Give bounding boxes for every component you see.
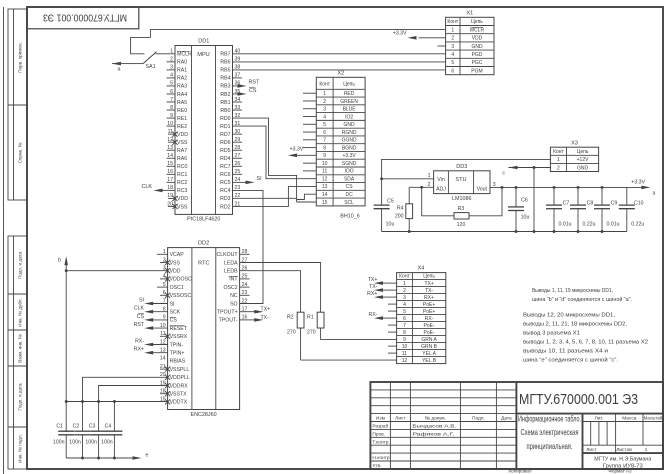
svg-text:Цепь: Цепь xyxy=(423,274,435,280)
svg-text:MCLR: MCLR xyxy=(470,27,485,33)
svg-text:RA2: RA2 xyxy=(177,76,187,82)
svg-text:120: 120 xyxy=(457,222,466,228)
svg-text:Конт: Конт xyxy=(319,81,330,87)
svg-text:шина “b” и “d” соединяются с ш: шина “b” и “d” соединяются с шиной “а”. xyxy=(532,296,632,303)
svg-text:Бындасов А.В.: Бындасов А.В. xyxy=(412,424,456,430)
svg-text:CS: CS xyxy=(346,184,354,190)
svg-text:Подп. и дата: Подп. и дата xyxy=(18,383,23,411)
svg-text:VSS: VSS xyxy=(177,140,188,146)
svg-text:CLK: CLK xyxy=(142,184,153,190)
svg-text:2: 2 xyxy=(451,36,454,42)
svg-text:INT: INT xyxy=(229,277,238,283)
svg-text:SCL: SCL xyxy=(344,200,354,206)
svg-text:2: 2 xyxy=(403,288,406,294)
svg-text:Масса: Масса xyxy=(622,416,637,422)
svg-text:Подп. и дата: Подп. и дата xyxy=(18,252,23,280)
svg-text:3: 3 xyxy=(403,295,406,301)
svg-text:270: 270 xyxy=(307,330,316,336)
svg-text:Рафиков А.Г.: Рафиков А.Г. xyxy=(412,432,454,438)
svg-text:RC2: RC2 xyxy=(177,180,187,186)
svg-text:RD4: RD4 xyxy=(220,156,230,162)
svg-text:4: 4 xyxy=(451,52,454,58)
svg-text:выводы 2, 11, 21, 18 микросхем: выводы 2, 11, 21, 18 микросхемы DD2, xyxy=(523,322,627,328)
svg-text:RD0: RD0 xyxy=(220,116,230,122)
svg-text:RC4: RC4 xyxy=(220,188,230,194)
svg-text:Инв. № дубл.: Инв. № дубл. xyxy=(18,298,23,326)
svg-text:PGD: PGD xyxy=(472,52,483,58)
svg-text:Формат А3: Формат А3 xyxy=(608,469,632,474)
svg-text:CLKOUT: CLKOUT xyxy=(217,252,239,258)
svg-text:RX+: RX+ xyxy=(367,291,377,297)
svg-text:7: 7 xyxy=(403,323,406,329)
svg-text:Конт: Конт xyxy=(399,274,410,280)
svg-text:RA7: RA7 xyxy=(177,148,187,154)
svg-text:10u: 10u xyxy=(521,215,530,221)
svg-text:+3.3V: +3.3V xyxy=(393,30,407,36)
svg-text:RX-: RX- xyxy=(135,338,144,344)
svg-text:PoE-: PoE- xyxy=(424,330,435,336)
svg-text:1: 1 xyxy=(403,281,406,287)
svg-text:Листов: Листов xyxy=(616,447,632,453)
svg-text:3: 3 xyxy=(451,44,454,50)
svg-text:Цепь: Цепь xyxy=(343,81,355,87)
svg-text:12: 12 xyxy=(322,176,328,182)
svg-text:DD3: DD3 xyxy=(456,164,467,170)
svg-text:Конт: Конт xyxy=(553,149,564,155)
svg-text:VCAP: VCAP xyxy=(170,252,185,258)
svg-text:100n: 100n xyxy=(101,440,113,446)
svg-text:13: 13 xyxy=(322,184,328,190)
svg-text:VDDTX: VDDTX xyxy=(170,400,188,406)
svg-text:Утв.: Утв. xyxy=(372,463,381,469)
svg-text:Справ. №: Справ. № xyxy=(18,143,23,164)
svg-text:0.01u: 0.01u xyxy=(607,222,620,228)
svg-text:Н.контр.: Н.контр. xyxy=(372,455,390,461)
svg-text:X2: X2 xyxy=(337,70,344,76)
svg-text:Т.контр.: Т.контр. xyxy=(372,439,389,445)
svg-text:C8: C8 xyxy=(587,201,594,207)
svg-text:RD1: RD1 xyxy=(220,124,230,130)
svg-text:0.22u: 0.22u xyxy=(631,222,644,228)
svg-text:TPOUT+: TPOUT+ xyxy=(217,310,238,316)
svg-text:GREEN: GREEN xyxy=(340,99,358,105)
svg-text:1: 1 xyxy=(451,27,454,33)
svg-text:RA0: RA0 xyxy=(177,60,187,66)
svg-text:TPIN+: TPIN+ xyxy=(170,351,185,357)
svg-text:Перв. примен.: Перв. примен. xyxy=(18,42,23,73)
svg-text:Копировал: Копировал xyxy=(508,469,531,474)
svg-text:100n: 100n xyxy=(53,440,65,446)
svg-text:RD5: RD5 xyxy=(220,148,230,154)
svg-text:RA5: RA5 xyxy=(177,100,187,106)
svg-text:RB4: RB4 xyxy=(220,76,230,82)
svg-text:100n: 100n xyxy=(85,440,97,446)
svg-text:RESET: RESET xyxy=(170,326,188,332)
svg-text:GRN A: GRN A xyxy=(421,337,437,343)
svg-text:4: 4 xyxy=(323,114,326,120)
svg-text:SI: SI xyxy=(139,297,144,303)
svg-text:CS: CS xyxy=(249,88,257,94)
svg-text:C3: C3 xyxy=(89,424,96,430)
svg-text:Цепь: Цепь xyxy=(471,19,483,25)
svg-text:9: 9 xyxy=(403,337,406,343)
svg-text:RE0: RE0 xyxy=(177,108,187,114)
svg-text:1: 1 xyxy=(428,173,431,179)
svg-text:12: 12 xyxy=(402,358,408,364)
svg-text:YEL B: YEL B xyxy=(422,358,437,364)
svg-text:RC1: RC1 xyxy=(177,172,187,178)
svg-text:Лит.: Лит. xyxy=(595,416,604,422)
svg-text:RED: RED xyxy=(344,91,355,97)
svg-text:OSC1: OSC1 xyxy=(170,285,184,291)
svg-text:VDD: VDD xyxy=(177,132,188,138)
svg-text:GGND: GGND xyxy=(342,138,357,144)
svg-text:ENC28J60: ENC28J60 xyxy=(191,412,217,418)
svg-text:выводы 10, 11 разъема X4 и: выводы 10, 11 разъема X4 и xyxy=(523,349,608,355)
svg-text:8: 8 xyxy=(403,330,406,336)
svg-text:OSC2: OSC2 xyxy=(223,285,237,291)
svg-text:GND: GND xyxy=(471,44,483,50)
svg-text:R1: R1 xyxy=(307,315,314,321)
svg-text:e: e xyxy=(146,453,149,459)
svg-text:14: 14 xyxy=(160,356,166,362)
svg-text:№ докум.: № докум. xyxy=(425,416,446,422)
svg-text:22: 22 xyxy=(242,298,248,304)
svg-text:14: 14 xyxy=(322,192,328,198)
svg-text:Информационное табло.: Информационное табло. xyxy=(518,414,581,423)
svg-text:RD6: RD6 xyxy=(220,140,230,146)
svg-text:RA6: RA6 xyxy=(177,156,187,162)
svg-text:LM1086: LM1086 xyxy=(452,196,471,202)
svg-text:SA1: SA1 xyxy=(145,64,155,70)
svg-text:RC5: RC5 xyxy=(220,180,230,186)
svg-text:6: 6 xyxy=(403,316,406,322)
svg-text:Подп.: Подп. xyxy=(472,416,485,422)
svg-text:TX-: TX- xyxy=(261,315,270,321)
svg-text:DD2: DD2 xyxy=(198,241,209,247)
svg-text:270: 270 xyxy=(287,330,296,336)
svg-text:RC3: RC3 xyxy=(177,188,187,194)
svg-text:PoE+: PoE+ xyxy=(423,309,435,315)
svg-text:DC: DC xyxy=(345,192,353,198)
svg-text:0.22u: 0.22u xyxy=(583,222,596,228)
svg-text:4: 4 xyxy=(403,302,406,308)
svg-text:STU: STU xyxy=(455,177,466,183)
svg-text:C9: C9 xyxy=(611,201,618,207)
svg-text:RB0: RB0 xyxy=(220,108,230,114)
svg-text:CS: CS xyxy=(170,318,178,324)
svg-text:RA4: RA4 xyxy=(177,92,187,98)
svg-text:VSS: VSS xyxy=(177,204,188,210)
svg-text:SI: SI xyxy=(170,301,175,307)
svg-text:Цепь: Цепь xyxy=(577,149,589,155)
svg-text:R2: R2 xyxy=(287,315,294,321)
svg-text:+3.3V: +3.3V xyxy=(290,146,304,152)
svg-text:VSSOSC: VSSOSC xyxy=(170,293,192,299)
svg-text:RB6: RB6 xyxy=(220,60,230,66)
svg-text:TX+: TX+ xyxy=(368,277,378,283)
svg-text:6: 6 xyxy=(451,68,454,74)
svg-text:VDD: VDD xyxy=(177,196,188,202)
svg-text:SGND: SGND xyxy=(342,161,357,167)
svg-text:VSSRX: VSSRX xyxy=(170,334,188,340)
svg-text:7: 7 xyxy=(323,138,326,144)
svg-text:VSSTX: VSSTX xyxy=(170,392,188,398)
svg-text:11: 11 xyxy=(322,169,327,175)
svg-text:1: 1 xyxy=(645,447,648,453)
svg-text:SCK: SCK xyxy=(170,310,181,316)
svg-text:PGC: PGC xyxy=(472,60,483,66)
svg-text:c: c xyxy=(502,171,505,177)
svg-text:10u: 10u xyxy=(386,222,395,228)
svg-text:VSS: VSS xyxy=(170,260,181,266)
svg-text:RBIAS: RBIAS xyxy=(170,359,186,365)
svg-text:МГТУ.670000.001 Э3: МГТУ.670000.001 Э3 xyxy=(43,11,127,22)
svg-text:PoE-: PoE- xyxy=(424,323,435,329)
svg-text:R3: R3 xyxy=(458,206,465,212)
svg-text:RC6: RC6 xyxy=(220,172,230,178)
svg-text:TX-: TX- xyxy=(425,288,433,294)
svg-text:шина “е” соединяется с шиной “: шина “е” соединяется с шиной “с”. xyxy=(523,356,618,363)
svg-text:PoE+: PoE+ xyxy=(423,302,435,308)
svg-text:Лист: Лист xyxy=(586,447,597,453)
svg-text:VDDOSC: VDDOSC xyxy=(170,277,192,283)
svg-text:VDD: VDD xyxy=(472,36,483,42)
svg-text:RD2: RD2 xyxy=(220,204,230,210)
svg-text:VDD: VDD xyxy=(170,269,181,275)
svg-text:RA1: RA1 xyxy=(177,68,187,74)
svg-text:X1: X1 xyxy=(466,11,473,17)
svg-text:GND: GND xyxy=(344,122,356,128)
svg-text:2: 2 xyxy=(557,165,560,171)
svg-text:МГТУ.670000.001 Э3: МГТУ.670000.001 Э3 xyxy=(519,391,638,408)
svg-text:C5: C5 xyxy=(387,199,394,205)
svg-text:RC7: RC7 xyxy=(220,164,230,170)
svg-text:+3.3V: +3.3V xyxy=(631,180,645,186)
svg-text:TX-: TX- xyxy=(369,284,378,290)
svg-text:RX+: RX+ xyxy=(134,347,144,353)
svg-text:5: 5 xyxy=(451,60,454,66)
svg-text:1: 1 xyxy=(557,157,560,163)
svg-text:200: 200 xyxy=(395,214,404,220)
svg-text:BLUE: BLUE xyxy=(343,107,357,113)
svg-text:C4: C4 xyxy=(105,424,112,430)
svg-text:5: 5 xyxy=(323,122,326,128)
svg-text:Пров.: Пров. xyxy=(372,432,385,438)
svg-text:IOO: IOO xyxy=(345,169,354,175)
svg-text:b: b xyxy=(58,258,61,264)
svg-text:RX+: RX+ xyxy=(424,295,434,301)
svg-text:SDA: SDA xyxy=(344,176,355,182)
svg-text:C6: C6 xyxy=(521,198,528,204)
svg-text:6: 6 xyxy=(323,130,326,136)
svg-text:NC: NC xyxy=(230,293,238,299)
svg-text:RE2: RE2 xyxy=(177,124,187,130)
svg-text:10: 10 xyxy=(322,161,328,167)
svg-text:SO: SO xyxy=(230,301,238,307)
svg-text:VDDPLL: VDDPLL xyxy=(170,375,190,381)
svg-text:RE1: RE1 xyxy=(177,116,187,122)
svg-text:RB2: RB2 xyxy=(220,92,230,98)
svg-text:1: 1 xyxy=(323,91,326,97)
svg-text:RST: RST xyxy=(134,322,145,328)
svg-text:3: 3 xyxy=(493,182,496,188)
svg-text:CS: CS xyxy=(137,314,145,320)
svg-text:МГТУ им. Н.Э.Баумана: МГТУ им. Н.Э.Баумана xyxy=(594,457,651,463)
svg-text:RX-: RX- xyxy=(368,312,377,318)
svg-text:TX+: TX+ xyxy=(424,281,433,287)
svg-text:Схема электрическая: Схема электрическая xyxy=(521,428,579,437)
svg-text:C10: C10 xyxy=(634,201,644,207)
svg-text:3: 3 xyxy=(323,107,326,113)
svg-text:Конт: Конт xyxy=(447,19,458,25)
svg-text:BGND: BGND xyxy=(342,145,357,151)
svg-text:CLK: CLK xyxy=(134,306,145,312)
svg-text:принципиальная.: принципиальная. xyxy=(527,442,573,451)
svg-text:LEDA: LEDA xyxy=(224,260,238,266)
svg-text:Инв. № подл.: Инв. № подл. xyxy=(18,434,23,463)
svg-text:SI: SI xyxy=(257,176,262,182)
svg-text:BH10_6: BH10_6 xyxy=(340,214,359,220)
svg-text:VDDRX: VDDRX xyxy=(170,383,189,389)
svg-text:RD7: RD7 xyxy=(220,132,230,138)
svg-text:RB1: RB1 xyxy=(220,100,230,106)
svg-text:RB7: RB7 xyxy=(220,52,230,58)
svg-text:а: а xyxy=(118,67,121,73)
svg-text:LEDB: LEDB xyxy=(224,269,238,275)
svg-text:PGM: PGM xyxy=(471,68,482,74)
svg-text:VSSPLL: VSSPLL xyxy=(170,367,190,373)
svg-text:5: 5 xyxy=(403,309,406,315)
svg-text:C1: C1 xyxy=(56,424,63,430)
svg-text:IO2: IO2 xyxy=(345,114,353,120)
svg-text:Vout: Vout xyxy=(477,186,488,192)
svg-text:DD1: DD1 xyxy=(198,39,209,45)
svg-text:Vin: Vin xyxy=(437,177,445,183)
svg-text:C2: C2 xyxy=(73,424,80,430)
svg-text:Масштаб: Масштаб xyxy=(644,416,663,421)
svg-text:PIC18LF4620: PIC18LF4620 xyxy=(187,217,220,223)
svg-text:RC0: RC0 xyxy=(177,164,187,170)
svg-text:Дата: Дата xyxy=(501,416,512,422)
svg-text:+12V: +12V xyxy=(577,157,589,163)
svg-text:GRN B: GRN B xyxy=(421,344,438,350)
svg-text:2: 2 xyxy=(323,99,326,105)
svg-text:0.01u: 0.01u xyxy=(559,222,572,228)
svg-text:RX-: RX- xyxy=(425,316,434,322)
svg-text:8: 8 xyxy=(323,145,326,151)
svg-text:a: a xyxy=(653,191,656,197)
svg-text:15: 15 xyxy=(322,200,328,206)
svg-text:YEL A: YEL A xyxy=(422,351,436,357)
svg-text:R4: R4 xyxy=(397,206,404,212)
svg-text:11: 11 xyxy=(402,351,407,357)
svg-text:10: 10 xyxy=(402,344,408,350)
svg-text:RB5: RB5 xyxy=(220,68,230,74)
svg-text:вывод 3 разъема X1: вывод 3 разъема X1 xyxy=(523,331,580,337)
svg-text:TX+: TX+ xyxy=(261,307,271,313)
svg-text:Изм: Изм xyxy=(376,416,385,422)
svg-text:MCLR: MCLR xyxy=(177,52,192,58)
svg-text:X3: X3 xyxy=(571,140,578,146)
svg-text:Взам. инв. №: Взам. инв. № xyxy=(18,334,23,363)
svg-text:Выводы 1, 11, 19 микросхемы DD: Выводы 1, 11, 19 микросхемы DD1, xyxy=(532,288,613,294)
svg-text:TPIN-: TPIN- xyxy=(170,342,184,348)
svg-text:RD3: RD3 xyxy=(220,196,230,202)
svg-text:Лист: Лист xyxy=(395,416,406,422)
svg-text:RB3: RB3 xyxy=(220,84,230,90)
svg-text:9: 9 xyxy=(323,153,326,159)
svg-text:Выводы 12, 20 микросхемы DD1,: Выводы 12, 20 микросхемы DD1, xyxy=(523,313,615,319)
svg-text:+3.3V: +3.3V xyxy=(342,153,356,159)
svg-text:100n: 100n xyxy=(69,440,81,446)
svg-text:X4: X4 xyxy=(418,266,425,272)
svg-text:RTC: RTC xyxy=(198,261,209,267)
svg-text:RGND: RGND xyxy=(342,130,357,136)
svg-text:ADJ: ADJ xyxy=(436,186,446,192)
svg-text:C7: C7 xyxy=(563,201,570,207)
svg-text:GND: GND xyxy=(577,165,589,171)
svg-text:RA3: RA3 xyxy=(177,84,187,90)
svg-text:RST: RST xyxy=(249,80,260,86)
svg-text:MPU: MPU xyxy=(197,52,209,58)
svg-text:TPOUT-: TPOUT- xyxy=(219,318,238,324)
svg-text:Разраб.: Разраб. xyxy=(372,424,389,430)
svg-text:выводы 1, 2, 3, 4, 5, 6, 7, 8,: выводы 1, 2, 3, 4, 5, 6, 7, 8, 10, 11 ра… xyxy=(523,340,648,346)
